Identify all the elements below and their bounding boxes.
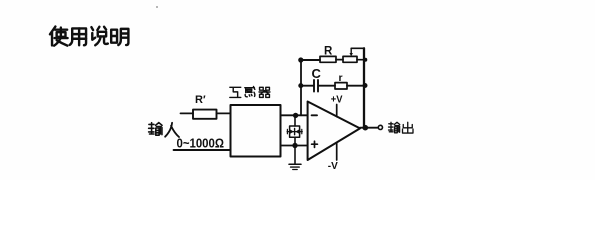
- wire to capacitor: [301, 85, 313, 87]
- wire r to right vertical: [347, 85, 364, 87]
- output wire: [360, 127, 378, 129]
- -V pin: [336, 143, 338, 160]
- wire to ground: [294, 137, 296, 164]
- output node: [363, 125, 369, 131]
- stray speck: [156, 6, 158, 8]
- capacitor C1 plates: [313, 80, 315, 92]
- svg-text:r: r: [339, 72, 343, 84]
- wire transformer to inverting input: [281, 114, 308, 116]
- svg-text:-V: -V: [328, 160, 338, 172]
- wire transformer to non-inverting input: [281, 145, 308, 147]
- wire R to pot: [336, 59, 343, 61]
- transformer T1 box: [231, 105, 281, 157]
- wire to R: [301, 59, 320, 61]
- output terminal circle: [378, 125, 382, 129]
- label 输入 (input): [149, 123, 163, 136]
- op-amp U1: [308, 102, 360, 161]
- wire cap to r: [319, 85, 335, 87]
- wire input bottom: [174, 149, 231, 151]
- feedback left vertical wire: [300, 60, 302, 116]
- wire pot to right vertical: [357, 59, 364, 61]
- svg-text:R′: R′: [195, 94, 206, 106]
- node at inverting wire: [293, 113, 298, 118]
- resistor R1 (R'): [193, 110, 217, 119]
- wire input to R': [181, 112, 194, 114]
- label 互感器: [230, 87, 241, 97]
- protector RV1 (bidirectional suppressor): [294, 115, 296, 126]
- svg-text:C: C: [312, 66, 322, 81]
- resistor R2 (R): [320, 56, 336, 62]
- title 使用说明: [50, 27, 68, 46]
- svg-text:R: R: [324, 45, 333, 57]
- node at non-inverting wire: [292, 143, 297, 148]
- plus sign: [312, 143, 318, 145]
- node top-left of feedback: [298, 57, 303, 62]
- minus sign: [312, 114, 317, 116]
- +V pin: [336, 105, 338, 117]
- node pot junction: [363, 58, 367, 62]
- node cap branch left: [298, 83, 303, 88]
- label 输出 (output): [389, 122, 400, 133]
- potentiometer RP1: [343, 56, 357, 62]
- ground: [289, 163, 301, 165]
- right vertical feedback wire: [363, 48, 365, 127]
- resistor r: [335, 83, 347, 89]
- svg-text:+V: +V: [331, 94, 343, 106]
- svg-text:0~1000Ω: 0~1000Ω: [177, 135, 225, 150]
- node cap branch right: [363, 83, 368, 88]
- wire R' to transformer: [217, 112, 231, 114]
- wiper arrow: [350, 49, 352, 54]
- wiper top wire: [351, 47, 364, 49]
